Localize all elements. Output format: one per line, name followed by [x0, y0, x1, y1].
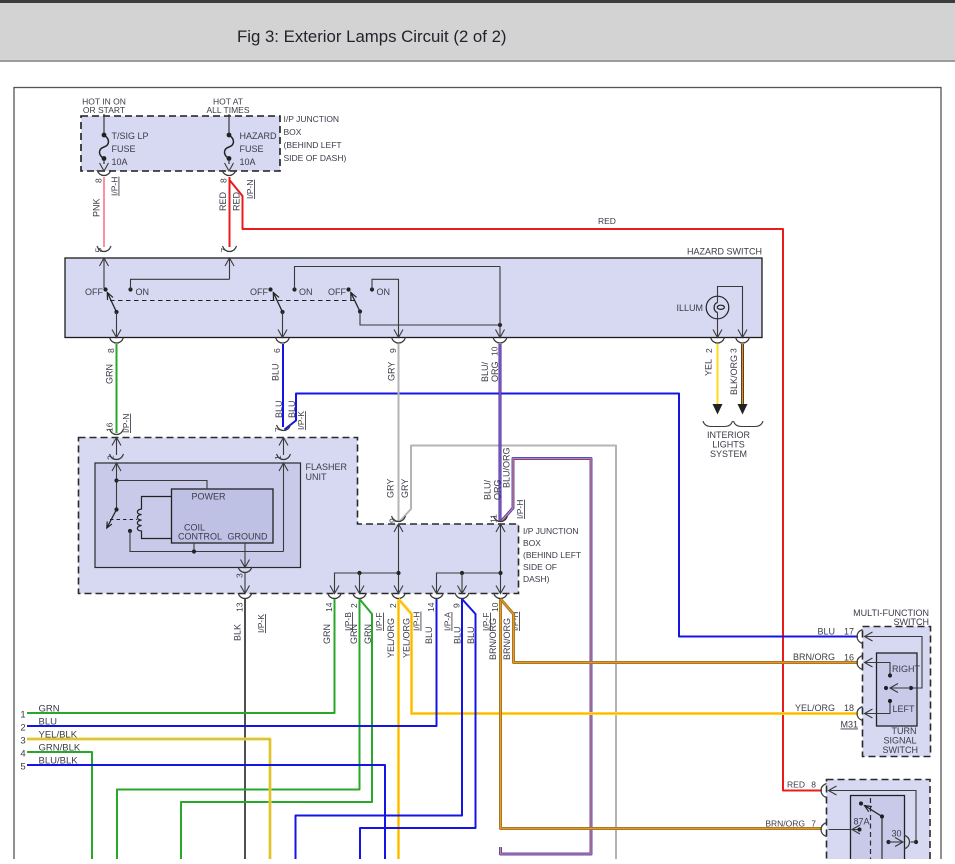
svg-text:10: 10: [490, 602, 500, 612]
svg-text:POWER: POWER: [192, 492, 227, 502]
connector I/P-N pin 8: [222, 170, 229, 176]
svg-text:RIGHT: RIGHT: [892, 664, 921, 674]
connector I/P-K pin 7: [277, 425, 284, 431]
wire BLU hazard pin6 to flasher pin1: [282, 344, 284, 427]
switch 1 ON contact: [128, 287, 132, 291]
connector I/P-F pin 2: [353, 593, 360, 599]
svg-text:HAZARD: HAZARD: [240, 131, 278, 141]
arrow YEL to interior lights system: [713, 404, 723, 415]
connector hazard pin 6: [276, 338, 283, 344]
svg-text:8: 8: [219, 178, 229, 183]
svg-text:13: 13: [235, 602, 245, 612]
svg-text:BLU: BLU: [466, 626, 476, 644]
wire BLU output 9: [461, 573, 463, 594]
connector hazard pin 2: [711, 338, 718, 344]
flasher coil: [137, 497, 171, 539]
svg-text:FLASHER: FLASHER: [306, 462, 348, 472]
svg-text:GRY: GRY: [387, 362, 397, 381]
svg-text:BLU: BLU: [274, 400, 284, 418]
svg-text:14: 14: [324, 602, 334, 612]
wire node to pin 10: [499, 267, 501, 338]
svg-text:4: 4: [20, 749, 25, 760]
wire YEL/ORG to MFS pin18: [399, 599, 859, 714]
flasher pin 1 inner entry: [279, 463, 288, 471]
svg-text:17: 17: [844, 627, 854, 637]
svg-text:BLU: BLU: [453, 626, 463, 644]
wire BLU/ORG hazard pin10 to junction pin11: [499, 344, 502, 521]
svg-text:TURN: TURN: [892, 726, 917, 736]
flasher pin 2 inner entry: [112, 463, 121, 471]
hazard switch box: [65, 258, 762, 338]
wire splice to GRN outputs: [335, 573, 399, 594]
connector I/P-H pin 2: [392, 593, 399, 599]
switch 2 ON contact: [292, 287, 296, 291]
wire BRN/ORG to MFS pin16: [501, 599, 859, 663]
wire RED branch to turn signal relay: [230, 180, 823, 791]
wire ON1 to pin 7: [131, 279, 230, 289]
switch 3 OFF contact: [346, 287, 350, 291]
connector junction pin 11: [494, 516, 501, 522]
hazard pin 5 entry: [100, 258, 109, 266]
svg-text:6: 6: [272, 348, 282, 353]
switch 1 blade: [107, 293, 116, 313]
svg-text:9: 9: [388, 348, 398, 353]
svg-text:BRN/ORG: BRN/ORG: [502, 618, 512, 660]
title bar: [0, 0, 955, 3]
svg-text:16: 16: [105, 422, 115, 432]
flasher contact blade: [107, 510, 117, 529]
svg-text:BLK/ORG: BLK/ORG: [729, 355, 739, 395]
wire pin16 to RIGHT contact: [865, 658, 873, 667]
wire pin3 to box edge: [244, 573, 246, 594]
junction pin 9 entry: [394, 524, 403, 532]
connector I/P-H pin 10: [494, 593, 501, 599]
wire ON3 to pin 9: [372, 279, 399, 337]
svg-text:3: 3: [235, 573, 245, 578]
connector MFS pin 16: [857, 656, 863, 670]
svg-text:OFF: OFF: [250, 287, 268, 297]
svg-text:3: 3: [729, 348, 739, 353]
svg-text:RED: RED: [598, 216, 616, 226]
flasher pin 2 entry: [112, 438, 121, 446]
wire BLK/ORG to interior lights: [741, 344, 744, 406]
svg-text:GRN: GRN: [349, 624, 359, 644]
svg-text:BLK: BLK: [233, 624, 243, 641]
svg-text:YEL/ORG: YEL/ORG: [795, 703, 835, 713]
connector I/P-A pin 14: [430, 593, 437, 599]
svg-text:I/P-N: I/P-N: [121, 414, 131, 433]
wire GRN/BLK: [27, 752, 92, 859]
svg-text:2: 2: [106, 455, 116, 460]
svg-text:SWITCH: SWITCH: [883, 745, 919, 755]
wire GRN hazard pin8 to flasher: [116, 344, 118, 433]
node BLU output tap: [460, 571, 464, 575]
wire lamp top to pin 3: [718, 287, 743, 338]
node coil control junction: [192, 549, 196, 553]
wire BLU/ORG loop from junction pin11: [501, 459, 592, 855]
svg-text:BLU: BLU: [39, 717, 58, 728]
svg-text:FUSE: FUSE: [240, 144, 264, 154]
junction pin 11 entry: [496, 524, 505, 532]
svg-text:SIDE OF DASH): SIDE OF DASH): [284, 153, 347, 163]
connector hazard pin 5: [97, 246, 104, 252]
svg-text:8: 8: [106, 348, 116, 353]
wire switch3 to node: [360, 312, 500, 326]
relay inner dashed divider: [870, 798, 872, 859]
flasher unit and I/P junction box dashed outline: [79, 438, 519, 594]
flasher pin 1 entry: [279, 438, 288, 446]
svg-text:10: 10: [490, 346, 500, 356]
turn signal pole contact: [884, 686, 888, 690]
svg-text:BLU/: BLU/: [483, 479, 493, 500]
svg-text:I/P JUNCTION: I/P JUNCTION: [284, 114, 340, 124]
wire BRN/ORG to relay pin7: [501, 599, 823, 829]
wire relay pin7 to 87A: [829, 829, 851, 831]
fuse F2 HAZARD 10A: [228, 114, 230, 133]
svg-text:(BEHIND LEFT: (BEHIND LEFT: [284, 140, 342, 150]
svg-text:GRN: GRN: [322, 624, 332, 644]
connector flasher pin 3: [238, 567, 245, 573]
wire GRN to stub 1: [27, 599, 335, 713]
multi-function switch box: [863, 627, 931, 757]
svg-text:I/P-H: I/P-H: [110, 177, 120, 196]
node GRN output tap: [357, 571, 361, 575]
svg-text:I/P-A: I/P-A: [443, 612, 453, 631]
wire power tap to POWER: [117, 481, 208, 490]
connector relay pin 7: [821, 823, 827, 837]
connector flasher pin 1: [277, 454, 284, 460]
connector hazard pin 10: [493, 338, 500, 344]
svg-text:2: 2: [704, 348, 714, 353]
wire BLU rear A: [296, 599, 463, 859]
svg-text:GRN: GRN: [105, 364, 115, 384]
svg-text:7: 7: [273, 427, 283, 432]
svg-text:1: 1: [20, 710, 25, 721]
svg-text:RED: RED: [218, 191, 228, 211]
svg-text:M31: M31: [840, 720, 858, 730]
wire GRN front turn A: [117, 599, 360, 859]
svg-text:GRY: GRY: [386, 479, 396, 498]
connector junction pin 9: [392, 516, 399, 522]
svg-text:GRN: GRN: [363, 624, 373, 644]
svg-text:GROUND: GROUND: [228, 532, 268, 542]
svg-text:UNIT: UNIT: [306, 472, 327, 482]
wire relay pin8 net: [829, 786, 837, 795]
connector MFS pin 18: [857, 707, 863, 721]
wire BLK ground: [244, 599, 246, 859]
svg-text:ALL TIMES: ALL TIMES: [207, 105, 250, 115]
svg-text:BRN/ORG: BRN/ORG: [765, 819, 805, 829]
wire GRN front turn B: [181, 599, 372, 859]
svg-text:30: 30: [892, 829, 902, 839]
wire GROUND lead: [244, 543, 246, 568]
svg-text:BLU: BLU: [271, 363, 281, 381]
wire pin18 to LEFT contact: [865, 709, 873, 718]
interior lights system brace: [703, 421, 733, 427]
svg-text:DASH): DASH): [523, 574, 550, 584]
svg-text:11: 11: [489, 514, 499, 523]
wire lamp bottom to pin 2: [717, 313, 719, 338]
wire YEL/BLK: [27, 739, 270, 859]
wire contact to coil-control net: [130, 531, 284, 552]
arrow BLK/ORG to interior lights system: [738, 404, 748, 415]
switch 2 blade: [273, 293, 282, 313]
svg-text:I/P-H: I/P-H: [515, 500, 525, 519]
node junction pin11 splice: [498, 571, 502, 575]
svg-text:10A: 10A: [112, 157, 128, 167]
connector hazard pin 8: [110, 338, 117, 344]
svg-text:18: 18: [844, 703, 854, 713]
svg-text:OR START: OR START: [83, 105, 125, 115]
wire pin17 to pole: [865, 632, 873, 641]
flasher fixed contact: [128, 529, 132, 533]
svg-text:5: 5: [94, 248, 104, 253]
switch 1 OFF contact: [103, 287, 107, 291]
relay inner box: [851, 796, 905, 864]
svg-text:I/P-F: I/P-F: [374, 613, 384, 631]
wire BLU/BLK: [27, 765, 385, 859]
svg-text:87A: 87A: [854, 817, 870, 827]
connector I/P-F pin 9: [455, 593, 462, 599]
svg-text:BOX: BOX: [284, 127, 302, 137]
svg-text:SIDE OF: SIDE OF: [523, 562, 557, 572]
svg-text:SIGNAL: SIGNAL: [883, 736, 916, 746]
fuse F1 T/SIG LP 10A: [103, 114, 105, 133]
svg-text:ON: ON: [136, 287, 150, 297]
connector I/P-H pin 8: [97, 170, 104, 176]
svg-text:YEL: YEL: [704, 359, 714, 376]
svg-text:BRN/ORG: BRN/ORG: [488, 618, 498, 660]
svg-text:14: 14: [426, 602, 436, 612]
svg-text:7: 7: [219, 248, 229, 253]
svg-text:HAZARD SWITCH: HAZARD SWITCH: [687, 247, 762, 257]
svg-text:(BEHIND LEFT: (BEHIND LEFT: [523, 550, 581, 560]
svg-text:9: 9: [388, 518, 398, 523]
svg-text:BLU/ORG: BLU/ORG: [502, 447, 512, 488]
svg-text:10A: 10A: [240, 157, 256, 167]
connector MFS pin 17: [857, 630, 863, 644]
switch 3 blade: [351, 293, 360, 312]
connector I/P-N pin 16: [110, 429, 117, 435]
svg-text:1: 1: [273, 455, 283, 460]
wire GRY hazard pin9 to junction pin9: [398, 344, 400, 521]
turn signal relay dashed box: [827, 780, 931, 864]
wire switch1 to pin 8: [116, 312, 118, 338]
svg-text:BLU: BLU: [424, 626, 434, 644]
turn signal switch inner box: [877, 653, 918, 726]
flasher unit inner box: [95, 463, 301, 568]
wire COIL CONTROL lead: [193, 543, 195, 552]
svg-text:INTERIOR: INTERIOR: [707, 430, 751, 440]
connector flasher pin 2: [110, 454, 117, 460]
I/P junction box (fuse box): [81, 116, 280, 171]
connector relay pin 8: [821, 784, 827, 798]
svg-text:GRY: GRY: [400, 479, 410, 498]
svg-text:16: 16: [844, 653, 854, 663]
svg-text:YEL/ORG: YEL/ORG: [386, 618, 396, 658]
wire splice to BLU outputs: [437, 573, 501, 594]
node switch2/3 junction: [498, 323, 502, 327]
switch 3 ON contact: [370, 287, 374, 291]
svg-text:PNK: PNK: [92, 198, 102, 217]
svg-text:LEFT: LEFT: [893, 704, 916, 714]
mechanical coupling dashed link: [110, 300, 356, 302]
svg-text:BOX: BOX: [523, 538, 541, 548]
connector I/P-K pin 13: [238, 593, 245, 599]
wire YEL/ORG straight down: [397, 599, 400, 859]
wire YEL to interior lights: [717, 344, 719, 406]
hazard pin 7 entry: [225, 258, 234, 266]
node flasher power tap: [114, 478, 118, 482]
wire RED from hazard fuse: [229, 177, 231, 247]
svg-text:5: 5: [20, 762, 25, 773]
svg-text:T/SIG LP: T/SIG LP: [112, 131, 149, 141]
connector hazard pin 7: [223, 246, 230, 252]
wire switch2 to pin 6: [282, 312, 284, 338]
svg-text:LIGHTS: LIGHTS: [712, 440, 745, 450]
svg-text:ON: ON: [299, 287, 313, 297]
svg-text:SYSTEM: SYSTEM: [710, 449, 747, 459]
flasher relay module box: [172, 489, 274, 543]
svg-text:RED: RED: [787, 780, 805, 790]
svg-text:I/P-K: I/P-K: [296, 411, 306, 430]
svg-text:GRN: GRN: [39, 704, 60, 715]
wire PNK: [103, 177, 105, 247]
svg-text:I/P-K: I/P-K: [256, 614, 266, 633]
svg-text:9: 9: [452, 603, 462, 608]
svg-text:I/P JUNCTION: I/P JUNCTION: [523, 526, 579, 536]
svg-text:8: 8: [94, 178, 104, 183]
wire BLU into MFS pin 17: [679, 636, 856, 638]
svg-text:Fig 3: Exterior Lamps Circuit: Fig 3: Exterior Lamps Circuit (2 of 2): [237, 27, 507, 46]
svg-text:BRN/ORG: BRN/ORG: [793, 652, 835, 662]
connector hazard pin 3: [736, 338, 743, 344]
connector I/P-B pin 14: [328, 593, 335, 599]
wire GRN output 2: [359, 573, 361, 594]
svg-text:7: 7: [811, 819, 816, 829]
svg-text:I/P-N: I/P-N: [245, 180, 255, 199]
svg-text:BLU: BLU: [817, 627, 835, 637]
svg-text:YEL/ORG: YEL/ORG: [402, 618, 412, 658]
wire BLU to stub 2: [27, 599, 437, 726]
svg-text:2: 2: [388, 603, 398, 608]
wire BLU rear B: [360, 599, 476, 859]
node junction pin9 splice: [396, 571, 400, 575]
svg-text:8: 8: [811, 780, 816, 790]
wire GRY loop from junction pin9: [401, 446, 617, 860]
svg-text:2: 2: [20, 723, 25, 734]
svg-text:SWITCH: SWITCH: [894, 617, 930, 627]
svg-text:OFF: OFF: [328, 287, 346, 297]
svg-text:ON: ON: [377, 287, 391, 297]
svg-text:RED: RED: [232, 191, 242, 211]
switch 2 OFF contact: [268, 287, 272, 291]
relay blade: [859, 801, 863, 805]
svg-text:3: 3: [20, 736, 25, 747]
svg-text:OFF: OFF: [85, 287, 103, 297]
wire ON2 to node: [295, 267, 501, 290]
relay contact 87A: [852, 825, 860, 834]
svg-text:2: 2: [349, 603, 359, 608]
svg-text:FUSE: FUSE: [112, 144, 136, 154]
svg-text:BLU/: BLU/: [480, 361, 490, 382]
connector hazard pin 9: [392, 338, 399, 344]
wire BLU branch to multi-function switch pin17: [285, 394, 859, 637]
flasher coil dashed link: [110, 519, 137, 521]
svg-text:ILLUM: ILLUM: [676, 303, 703, 313]
svg-text:CONTROL: CONTROL: [178, 532, 222, 542]
